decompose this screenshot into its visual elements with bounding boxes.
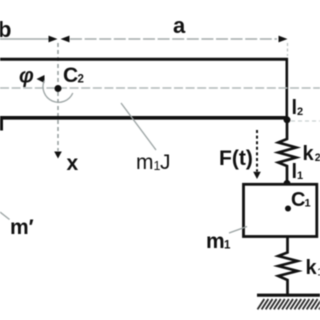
- spring k1: [278, 237, 297, 295]
- svg-text:2: 2: [78, 74, 84, 86]
- svg-text:1: 1: [297, 170, 303, 182]
- ground line: [257, 294, 320, 297]
- center of mass C2 dot: [55, 85, 62, 92]
- svg-text:2: 2: [315, 152, 320, 164]
- arrowhead b right: [49, 36, 58, 43]
- svg-text:φ: φ: [19, 65, 34, 88]
- beam bottom dashed extension: [291, 120, 320, 122]
- svg-text:2: 2: [297, 106, 303, 118]
- left edge support remnant: [0, 116, 3, 131]
- svg-text:1: 1: [224, 240, 231, 252]
- force F(t) arrowhead: [253, 172, 261, 179]
- beam top edge: [0, 58, 288, 61]
- svg-text:m: m: [136, 151, 154, 174]
- svg-text:C: C: [291, 189, 305, 211]
- svg-text:x: x: [67, 152, 79, 175]
- dimension line b: [0, 38, 49, 40]
- center of mass C1 dot: [285, 206, 291, 212]
- leader line to m1: [229, 227, 247, 234]
- svg-text:a: a: [173, 13, 186, 38]
- svg-text:1: 1: [305, 198, 311, 210]
- spring k2: [278, 122, 296, 183]
- extension line at beam right end: [287, 43, 289, 56]
- svg-text:k: k: [303, 143, 315, 165]
- svg-text:F(t): F(t): [219, 147, 253, 170]
- mass m1 box: [244, 184, 317, 236]
- extension line at C2 / x-axis dashed line: [57, 43, 59, 151]
- x axis arrowhead: [54, 152, 62, 159]
- arrowhead a left: [61, 36, 70, 43]
- svg-text:J: J: [160, 151, 171, 174]
- beam bottom edge: [0, 116, 288, 120]
- node I2 dot: [284, 116, 291, 123]
- force F(t) arrow line: [256, 130, 258, 172]
- svg-text:k: k: [306, 257, 318, 279]
- leader line to m1J: [121, 103, 156, 150]
- svg-text:m′: m′: [10, 216, 34, 239]
- arrowhead a right: [279, 36, 288, 43]
- phi arc arrowhead: [37, 75, 45, 83]
- leader line to m': [0, 212, 10, 220]
- ground hatching: [258, 299, 320, 309]
- beam right edge: [285, 58, 288, 120]
- node I1 dot: [284, 180, 291, 187]
- dimension line a: [70, 38, 277, 40]
- phi rotation arc: [43, 81, 73, 103]
- svg-text:m: m: [206, 230, 225, 253]
- beam centerline: [0, 87, 320, 89]
- svg-text:C: C: [63, 64, 78, 87]
